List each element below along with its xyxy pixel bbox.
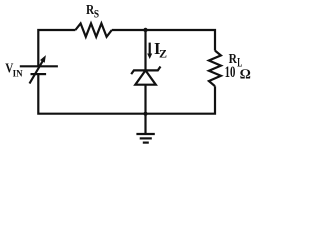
svg-text:10: 10 <box>225 64 236 81</box>
source VIN bottom bar <box>31 73 47 75</box>
label VIN <box>5 61 23 79</box>
node junction bottom <box>144 112 148 116</box>
zener diode cathode bar <box>131 67 160 75</box>
zener diode triangle <box>135 70 156 84</box>
source VIN top bar <box>20 65 58 67</box>
ground bar 2 <box>140 137 152 139</box>
svg-text:Z: Z <box>159 47 167 61</box>
label RL <box>229 52 243 70</box>
ground bar 3 <box>143 142 149 144</box>
wire right-bottom segment <box>38 74 215 114</box>
current arrow IZ head <box>147 54 152 60</box>
current arrow IZ shaft <box>149 43 151 55</box>
svg-text:IN: IN <box>13 69 24 79</box>
svg-text:S: S <box>94 8 99 20</box>
wire zener bottom and ground stem <box>144 85 146 134</box>
resistor RS zigzag <box>75 23 111 36</box>
wire zener top <box>144 30 146 70</box>
label IZ <box>154 39 167 61</box>
ground bar 1 <box>136 133 154 135</box>
svg-text:Ω: Ω <box>240 67 251 82</box>
wire top-left segment <box>38 30 75 66</box>
source VIN variable arrow shaft <box>30 61 44 84</box>
label RL value 10 ohm <box>225 64 251 82</box>
wire top-right segment <box>112 30 215 51</box>
source VIN variable arrowhead <box>40 55 46 63</box>
resistor RL zigzag <box>209 51 221 87</box>
label RS <box>86 2 99 20</box>
node junction top <box>143 28 147 32</box>
